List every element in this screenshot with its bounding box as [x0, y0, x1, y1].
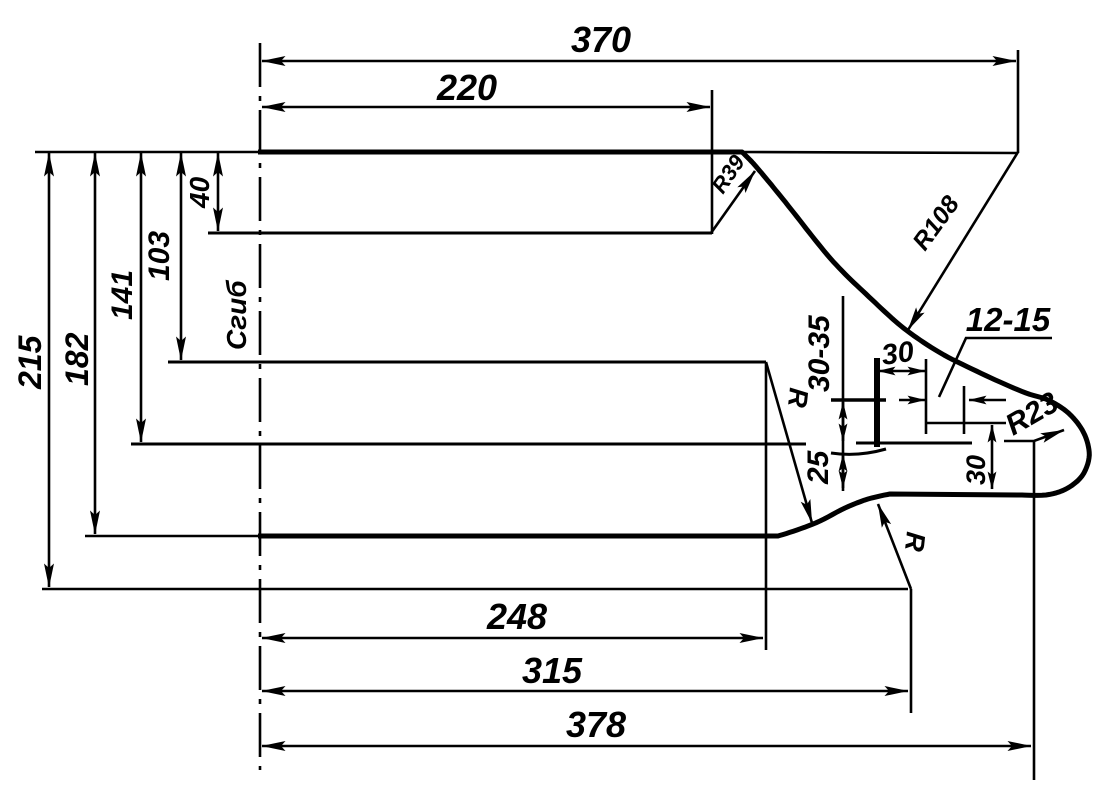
arrows for 25 span	[842, 454, 845, 488]
svg-text:141: 141	[106, 270, 139, 320]
bottom extension line y=589	[42, 588, 908, 591]
inner fold line y=443 (right part)	[856, 442, 972, 445]
svg-text:315: 315	[522, 650, 583, 691]
dimension 378	[262, 745, 1031, 748]
svg-text:370: 370	[571, 19, 631, 60]
fold centerline (dash-dot)	[259, 43, 262, 770]
svg-text:12-15: 12-15	[966, 301, 1051, 338]
svg-text:182: 182	[59, 332, 95, 386]
slot tick right	[925, 359, 928, 434]
dimension line x=843 (30-35 and 25)	[842, 296, 845, 491]
svg-text:103: 103	[143, 231, 176, 281]
leader R (lower right)	[878, 504, 911, 589]
svg-text:Сгиб: Сгиб	[221, 280, 252, 350]
svg-text:215: 215	[12, 334, 48, 390]
inner fold line y=444 (left part)	[131, 443, 806, 446]
extension line for 370	[1017, 50, 1020, 153]
dimension 248	[262, 637, 763, 640]
inner fold line y=233	[208, 232, 712, 235]
extension line for 220	[711, 90, 714, 234]
bottom edge left extension	[85, 535, 258, 538]
dimension 30 (slot length)	[878, 370, 925, 373]
svg-text:248: 248	[486, 596, 547, 637]
svg-text:R: R	[899, 530, 931, 553]
slot cap y=423	[926, 422, 1006, 425]
dimension 141	[140, 153, 143, 442]
slot bar (thick)	[874, 358, 880, 447]
inner fold line y=362	[168, 361, 766, 364]
leader R (lower left)	[766, 362, 812, 523]
extension line for 378	[1033, 441, 1036, 780]
arrow shaft toward 926	[899, 399, 925, 402]
dimension 315	[262, 690, 908, 693]
dimension 182	[94, 153, 97, 534]
leader R39	[711, 171, 755, 233]
extension line for 248	[765, 362, 768, 650]
leader R108	[908, 152, 1018, 330]
dimension 220	[262, 106, 710, 109]
arrows for 30-35 span	[842, 402, 845, 441]
svg-text:40: 40	[184, 176, 215, 209]
top edge left extension	[35, 151, 258, 154]
svg-text:378: 378	[566, 704, 626, 745]
extension line for 315	[910, 589, 913, 713]
slot side line y=400	[831, 398, 886, 401]
svg-text:30: 30	[961, 455, 991, 485]
svg-text:220: 220	[436, 67, 497, 108]
dimension 40	[217, 153, 220, 231]
dimension 370	[262, 60, 1016, 63]
slot line x=964	[963, 386, 966, 434]
top edge thin continuation to 370 extension	[742, 152, 1018, 153]
leader R23	[1004, 430, 1064, 441]
svg-text:30: 30	[880, 336, 916, 372]
dimension 215	[48, 153, 51, 587]
svg-text:30-35: 30-35	[803, 314, 836, 392]
dimension 103	[180, 153, 183, 360]
dimension 30 (nose height)	[991, 425, 994, 489]
outline of template (thick contour)	[258, 152, 1089, 536]
svg-text:25: 25	[802, 449, 835, 485]
arrow shaft toward 968	[969, 399, 1006, 402]
slot bottom arc	[831, 449, 886, 454]
